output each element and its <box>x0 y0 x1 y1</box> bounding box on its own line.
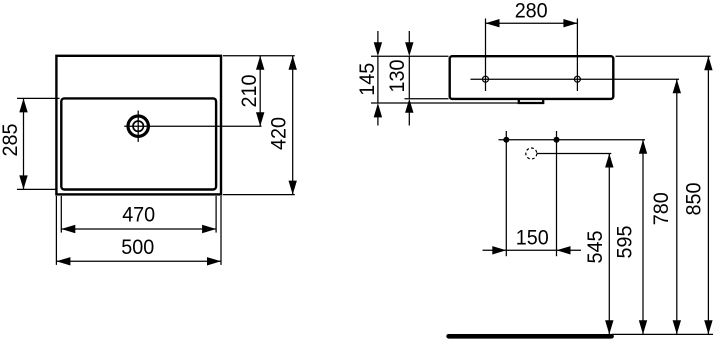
svg-text:850: 850 <box>681 182 705 215</box>
svg-text:280: 280 <box>515 0 548 22</box>
dim 470 arrow left <box>61 225 75 233</box>
dim 545 arrow up <box>605 154 613 168</box>
dim 130 arrow bottom (outside) <box>405 99 413 113</box>
fixing hole left circle <box>483 76 489 82</box>
svg-text:285: 285 <box>0 124 22 157</box>
extension line 130 bottom <box>405 98 449 100</box>
dim 280 line <box>486 22 578 24</box>
svg-text:420: 420 <box>267 117 291 150</box>
dim 470 line <box>61 228 216 230</box>
svg-text:470: 470 <box>122 203 155 227</box>
dim 595 line <box>642 140 644 335</box>
dim 420 arrow up <box>289 56 297 70</box>
dim 850 arrow up <box>704 56 712 70</box>
extension line 285 bottom <box>17 188 56 190</box>
dim 500 arrow right <box>207 257 221 265</box>
dim 500 arrow left <box>56 257 70 265</box>
dim 210 line <box>259 56 261 126</box>
drain boss tab below profile <box>519 99 543 103</box>
basin outer rim rect <box>56 56 221 195</box>
fixing bolt dot left <box>503 137 509 143</box>
dim 420 arrow down <box>289 181 297 195</box>
dim 210 arrow down <box>256 112 264 126</box>
faucet hole crosshair vertical <box>137 111 139 142</box>
fixing hole left extension vertical <box>485 19 487 92</box>
dim 545 arrow down <box>605 320 613 334</box>
faucet hole crosshair horizontal (extends to 210 dim line) <box>124 125 261 127</box>
extension line 470 left <box>60 196 62 233</box>
dim 285 arrow down <box>19 175 27 189</box>
floor thin line to right <box>612 333 713 335</box>
dim 150 arrow right (outside pointing left) <box>557 246 571 254</box>
dim 150 arrow left (outside pointing right) <box>492 246 506 254</box>
extension line through dots (595) <box>499 139 646 141</box>
vertical from left dot down to 150 dim <box>505 140 507 257</box>
faucet hole outer circle <box>128 116 148 136</box>
extension line 850 top <box>616 55 711 57</box>
dim 595 arrow up <box>639 140 647 154</box>
dim 595 arrow down <box>639 320 647 334</box>
svg-text:500: 500 <box>121 235 154 259</box>
svg-text:545: 545 <box>583 231 607 264</box>
dim 280 arrow left <box>486 19 500 27</box>
basin side profile body <box>450 56 614 99</box>
basin inner bowl rect <box>61 98 216 189</box>
dim 500 line <box>56 260 221 262</box>
dim 285 arrow up <box>19 98 27 112</box>
extension line 145 bottom (to drain tab) <box>371 102 519 104</box>
extension line 470 right <box>215 196 217 233</box>
dim 780 arrow down <box>673 320 681 334</box>
vertical from right dot down to 150 dim <box>556 140 558 257</box>
drain trap dashed circle <box>526 148 537 159</box>
dim 130 line <box>408 56 410 98</box>
dim 280 arrow right <box>563 19 577 27</box>
extension line bottom right (420 bottom) <box>223 194 295 196</box>
extension line top left of profile (145/130 top) <box>371 55 449 57</box>
dim 145 arrow bottom (outside) <box>374 103 382 117</box>
center line through fixing holes <box>471 78 680 80</box>
extension line 500 left <box>55 196 57 265</box>
extension line 285 top <box>17 97 60 99</box>
svg-text:595: 595 <box>612 226 636 259</box>
dim 780 line <box>676 79 678 334</box>
stub above right dot <box>556 131 558 140</box>
extension line top right of outer rect <box>223 55 295 57</box>
dim 850 arrow down <box>704 320 712 334</box>
dim 145 arrow top (outside) <box>374 42 382 56</box>
fixing bolt dot right <box>554 137 560 143</box>
fixing hole right circle <box>574 76 580 82</box>
extension line 500 right <box>220 196 222 265</box>
svg-text:150: 150 <box>516 226 549 250</box>
dim 545 line <box>608 154 610 335</box>
dim 150 line <box>483 249 582 251</box>
fixing hole right extension vertical <box>576 19 578 92</box>
faucet hole inner circle <box>133 121 143 131</box>
stub above left dot <box>505 131 507 140</box>
dim 145 line <box>377 56 379 103</box>
dim 210 arrow up <box>256 56 264 70</box>
svg-text:780: 780 <box>649 192 673 225</box>
floor bar (thick) <box>449 334 612 339</box>
dim 130 arrow top (outside) <box>405 42 413 56</box>
dim 420 line <box>292 56 294 195</box>
dim 850 line <box>707 56 709 334</box>
svg-text:130: 130 <box>385 59 409 92</box>
dim 780 arrow up <box>673 79 681 93</box>
dim 470 arrow right <box>202 225 216 233</box>
svg-text:210: 210 <box>237 74 261 107</box>
dim 285 line <box>23 98 25 189</box>
extension line from drain circle (545) <box>537 153 611 155</box>
svg-text:145: 145 <box>355 63 379 96</box>
